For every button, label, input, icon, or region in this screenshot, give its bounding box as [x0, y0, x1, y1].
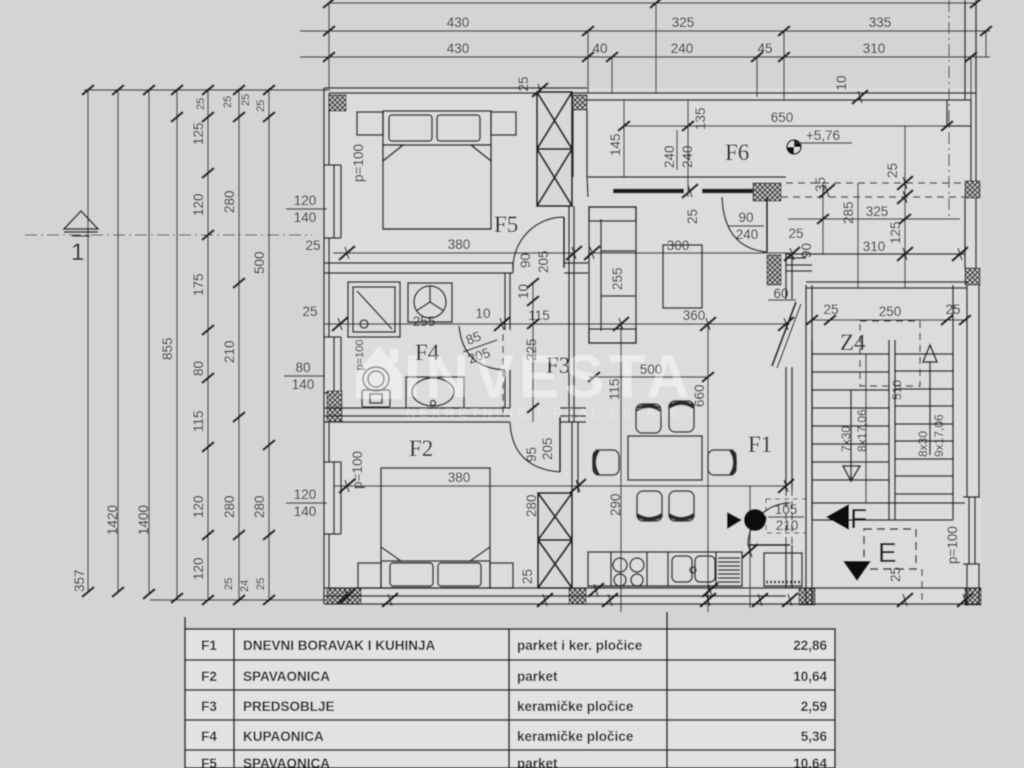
- svg-text:25: 25: [255, 578, 267, 590]
- entry arrow dot: [744, 509, 766, 531]
- svg-text:SPAVAONICA: SPAVAONICA: [243, 669, 330, 684]
- dining chair right: [708, 450, 736, 475]
- F6 elevation marker: [787, 128, 852, 154]
- svg-text:INVESTA: INVESTA: [404, 343, 695, 410]
- stairwell north wall: [806, 282, 967, 288]
- F2 interior dim 380: [333, 470, 794, 493]
- wall hatch bottom-left corner: [327, 588, 361, 604]
- F1 vertical dim line 1: [707, 324, 709, 612]
- kitchen ticks: [742, 544, 758, 558]
- entry arrow triangle: [727, 512, 742, 529]
- svg-text:280: 280: [524, 494, 539, 517]
- F2 nightstand left: [358, 563, 381, 588]
- F2 nightstand right: [490, 563, 513, 588]
- kitchen dim 500: [588, 362, 714, 382]
- right wall above terrace: [965, 0, 976, 100]
- svg-text:240: 240: [671, 41, 694, 56]
- svg-text:380: 380: [448, 237, 471, 252]
- svg-text:145: 145: [608, 133, 623, 156]
- marker F triangle: [826, 504, 849, 530]
- F1 vertical dim line 3: [620, 324, 622, 612]
- tick on top wall: [532, 83, 548, 97]
- left chain labels: [72, 94, 267, 592]
- F4 door leaf dashed: [502, 334, 504, 418]
- svg-text:120: 120: [294, 487, 317, 502]
- svg-text:1400: 1400: [136, 505, 151, 535]
- wall hatch terrace south: [753, 183, 781, 201]
- svg-text:120: 120: [294, 193, 317, 208]
- svg-text:650: 650: [771, 110, 794, 125]
- svg-text:240: 240: [662, 145, 677, 168]
- svg-text:430: 430: [447, 41, 470, 56]
- F3 west wall / F4 east wall: [505, 273, 510, 408]
- F3 east wall: [569, 206, 574, 422]
- svg-text:90: 90: [799, 243, 814, 258]
- svg-text:210: 210: [222, 340, 237, 363]
- svg-text:1420: 1420: [105, 505, 120, 535]
- top dimension line row 1: [323, 0, 982, 8]
- svg-text:25: 25: [240, 94, 252, 106]
- left dimension top ticks: [82, 85, 275, 95]
- dining chair left: [593, 450, 619, 475]
- top wall F5: [324, 88, 587, 93]
- svg-text:DNEVNI BORAVAK I KUHINJA: DNEVNI BORAVAK I KUHINJA: [243, 638, 436, 653]
- table row F1: [201, 638, 827, 653]
- svg-text:325: 325: [866, 204, 889, 219]
- top dimension line row 3: [300, 41, 990, 62]
- F5 nightstand left: [357, 112, 383, 135]
- svg-text:25: 25: [516, 76, 531, 91]
- left dimension vertical lines: [84, 88, 332, 602]
- svg-text:F5: F5: [494, 212, 518, 237]
- window stairwell east wall: [963, 497, 980, 564]
- svg-text:45: 45: [757, 41, 772, 56]
- dining table: [628, 436, 702, 480]
- dashed line stair bottom: [921, 569, 923, 604]
- svg-text:120: 120: [191, 557, 206, 580]
- svg-text:25: 25: [520, 569, 535, 584]
- table row F5: [201, 756, 827, 768]
- svg-text:357: 357: [72, 569, 87, 592]
- svg-text:855: 855: [160, 337, 175, 360]
- marker down triangle: [843, 561, 871, 581]
- X shaft column F5: [537, 92, 572, 206]
- left wall window labels 120/140 F5: [286, 193, 327, 253]
- fridge cabinet: [764, 553, 802, 586]
- balcony sliding door: [768, 286, 801, 368]
- svg-text:120: 120: [191, 193, 206, 216]
- svg-text:380: 380: [448, 470, 471, 485]
- left outer wall: [324, 88, 329, 604]
- svg-text:10: 10: [475, 306, 490, 321]
- wall hatch F1 north stub: [767, 255, 781, 285]
- X shaft column F2: [538, 493, 572, 588]
- window F2 left wall: [324, 462, 341, 534]
- svg-text:F2: F2: [201, 669, 217, 684]
- F6 interior dim line vertical: [624, 100, 688, 197]
- F4-F2 bottom wall: [324, 408, 586, 422]
- svg-text:F5: F5: [201, 756, 217, 768]
- svg-text:175: 175: [191, 273, 206, 296]
- svg-text:25: 25: [823, 302, 838, 317]
- svg-text:80: 80: [191, 361, 206, 376]
- wall hatch below F4 window: [327, 391, 342, 422]
- stairs right flight treads: [895, 354, 953, 494]
- svg-text:PREDSOBLJE: PREDSOBLJE: [243, 699, 335, 714]
- tick on terrace top wall: [852, 90, 868, 104]
- table row F4: [201, 729, 827, 744]
- wall hatch bottom stair-west: [799, 588, 815, 605]
- svg-text:115: 115: [191, 410, 206, 432]
- svg-text:25: 25: [223, 578, 235, 590]
- svg-text:25: 25: [888, 567, 903, 582]
- Z4 dashed landing rect: [860, 321, 920, 386]
- svg-text:10,64: 10,64: [793, 669, 827, 684]
- dash-dot axis top right: [948, 0, 950, 220]
- terrace south wall thin edge: [588, 176, 786, 178]
- svg-text:90: 90: [738, 210, 753, 225]
- F4 washbasin: [406, 377, 464, 408]
- svg-text:25: 25: [305, 238, 320, 253]
- svg-text:24: 24: [239, 580, 251, 592]
- Z4 dims 25 250 25: [806, 302, 971, 325]
- svg-text:115: 115: [528, 308, 550, 323]
- stairs down arrow: [843, 390, 860, 482]
- entry door labels 105/210: [766, 499, 806, 533]
- svg-text:1: 1: [71, 239, 84, 266]
- F2 bed: [381, 468, 490, 588]
- svg-text:210: 210: [776, 518, 799, 533]
- bottom outer wall: [324, 588, 981, 604]
- svg-text:25: 25: [788, 226, 803, 241]
- dining chair top-left: [636, 404, 661, 433]
- section marker triangle 1: [64, 211, 98, 266]
- svg-text:25: 25: [195, 98, 207, 110]
- dim line balcony mid: [788, 214, 960, 224]
- F5 bottom wall: [324, 263, 588, 273]
- svg-text:25: 25: [685, 209, 700, 224]
- svg-text:300: 300: [667, 238, 690, 253]
- svg-text:125: 125: [888, 221, 903, 244]
- wall hatch terrace east 1: [965, 181, 980, 198]
- table background: [185, 629, 835, 768]
- svg-text:205: 205: [536, 250, 551, 273]
- F1 vertical dim line 2: [749, 486, 751, 608]
- svg-text:keramičke pločice: keramičke pločice: [517, 729, 634, 744]
- svg-text:240: 240: [736, 227, 759, 242]
- F5 door leaf and arc: [513, 217, 564, 268]
- window F5 left wall: [324, 165, 341, 238]
- svg-text:25: 25: [885, 163, 900, 178]
- svg-text:280: 280: [222, 190, 237, 213]
- svg-text:360: 360: [683, 308, 706, 323]
- svg-text:F1: F1: [748, 432, 772, 457]
- svg-text:310: 310: [863, 41, 886, 56]
- entry door opening dashed: [786, 489, 792, 545]
- interior dim line y324: [324, 317, 794, 331]
- terrace F5 window band ticks: [682, 184, 698, 198]
- svg-text:F1: F1: [201, 638, 217, 653]
- svg-text:205: 205: [540, 437, 555, 460]
- wall hatch F5-terrace corner: [572, 95, 587, 110]
- stairwell west wall: [806, 285, 812, 604]
- kitchen sink: [672, 556, 715, 582]
- svg-text:35: 35: [813, 177, 828, 192]
- dining chair bottom-right: [669, 491, 694, 521]
- dining chair bottom-left: [637, 491, 662, 521]
- svg-text:parket i ker. pločice: parket i ker. pločice: [517, 638, 643, 653]
- svg-text:22,86: 22,86: [793, 638, 827, 653]
- left wall window labels 80/140 F4: [284, 304, 325, 392]
- svg-text:F2: F2: [409, 436, 433, 461]
- svg-text:325: 325: [672, 15, 695, 30]
- wall hatch terrace east 2: [965, 268, 980, 285]
- stairwell east outer wall: [967, 285, 979, 604]
- svg-text:125: 125: [191, 122, 206, 145]
- top dimension line row 2: [300, 15, 992, 36]
- svg-text:p=100: p=100: [351, 144, 366, 182]
- left wall window labels 120/140 F2: [286, 487, 327, 519]
- bottom wall ticks: [339, 589, 973, 607]
- svg-text:240: 240: [680, 145, 695, 168]
- left dimension chain ticks: [82, 112, 275, 605]
- svg-text:E: E: [878, 537, 897, 568]
- svg-text:parket: parket: [517, 669, 558, 684]
- svg-text:25: 25: [255, 100, 267, 112]
- svg-text:SPAVAONICA: SPAVAONICA: [243, 756, 330, 768]
- F5 interior dim line 380: [333, 237, 600, 260]
- svg-text:280: 280: [222, 495, 237, 518]
- terrace south wall band right: [702, 189, 753, 194]
- svg-text:335: 335: [869, 15, 892, 30]
- svg-text:F3: F3: [201, 699, 217, 714]
- svg-text:140: 140: [294, 504, 317, 519]
- window F4 left wall: [324, 337, 341, 393]
- stairs left flight treads: [812, 354, 889, 480]
- F4 door arc: [459, 326, 505, 370]
- legend table grid: [185, 612, 835, 768]
- F2 door leaf and arc: [510, 417, 560, 472]
- svg-text:95: 95: [524, 447, 539, 462]
- F4 shower: [348, 282, 400, 337]
- kitchen counter: [588, 552, 742, 586]
- svg-text:510: 510: [890, 380, 904, 400]
- F5 nightstand right: [491, 112, 516, 135]
- svg-text:140: 140: [294, 210, 317, 225]
- svg-text:25: 25: [222, 96, 234, 108]
- wall hatch bottom F2 corner: [569, 588, 586, 604]
- svg-text:keramičke pločice: keramičke pločice: [517, 699, 634, 714]
- svg-text:10,64: 10,64: [793, 756, 827, 768]
- F4 washing machine: [408, 283, 452, 322]
- kitchen dishwasher grill: [718, 558, 740, 582]
- svg-text:7x30: 7x30: [839, 426, 853, 452]
- svg-text:25: 25: [302, 304, 317, 319]
- svg-text:40: 40: [592, 41, 607, 56]
- terrace east outer wall: [965, 93, 976, 268]
- F5 bed: [383, 111, 491, 229]
- F1 northeast wall segment: [786, 265, 812, 271]
- svg-text:280: 280: [252, 495, 267, 518]
- svg-text:80: 80: [295, 360, 310, 375]
- F6 door to F1 leaf and arc: [722, 197, 767, 252]
- svg-text:120: 120: [191, 495, 206, 518]
- svg-text:F6: F6: [725, 140, 749, 165]
- interior dim line y253: [588, 252, 790, 254]
- svg-text:10: 10: [516, 284, 531, 299]
- stairs center rail: [812, 285, 965, 520]
- svg-text:285: 285: [841, 201, 856, 224]
- watermark house icon: [356, 346, 402, 399]
- balcony tick: [819, 184, 835, 198]
- F4 toilet: [362, 367, 390, 407]
- svg-text:Z4: Z4: [840, 330, 866, 355]
- svg-text:9x17,06: 9x17,06: [932, 414, 946, 457]
- terrace south dashed lines: [781, 183, 965, 197]
- stairs up arrow: [923, 345, 937, 455]
- F2 east wall: [572, 422, 578, 493]
- svg-text:2,59: 2,59: [801, 699, 827, 714]
- svg-text:105: 105: [775, 502, 798, 517]
- apartment floor background: [324, 88, 981, 604]
- marker E dashed box: [864, 529, 916, 569]
- F1 east wall: [786, 254, 792, 588]
- svg-text:255: 255: [610, 267, 625, 290]
- svg-text:+5,76: +5,76: [806, 128, 840, 143]
- svg-text:NEKRETNINE I REAL ESTATE: NEKRETNINE I REAL ESTATE: [406, 405, 682, 420]
- F5 east wall upper: [573, 110, 588, 197]
- wall hatch bottom-right corner: [965, 588, 981, 605]
- top extension lines: [329, 3, 986, 100]
- svg-text:250: 250: [879, 304, 902, 319]
- F4 door labels 85/205: [463, 329, 497, 367]
- svg-text:KUPAONICA: KUPAONICA: [243, 729, 324, 744]
- table row F2: [201, 669, 827, 684]
- F1 couch: [589, 207, 636, 343]
- svg-text:60: 60: [773, 286, 788, 301]
- svg-text:parket: parket: [517, 756, 558, 768]
- svg-text:F4: F4: [201, 729, 217, 744]
- terrace top wall: [573, 93, 976, 126]
- svg-text:140: 140: [292, 377, 315, 392]
- svg-text:255: 255: [413, 314, 436, 329]
- balcony south line: [784, 247, 968, 261]
- svg-text:8x17,06: 8x17,06: [855, 409, 869, 452]
- dining chair top-right: [669, 401, 694, 432]
- svg-text:135: 135: [693, 107, 708, 130]
- svg-text:p=100: p=100: [945, 526, 960, 564]
- entry door leaf and arc: [748, 503, 790, 545]
- svg-text:5,36: 5,36: [801, 729, 828, 744]
- svg-text:500: 500: [252, 251, 267, 274]
- svg-text:310: 310: [863, 239, 886, 254]
- kitchen stove burners: [613, 558, 644, 586]
- svg-text:p=100: p=100: [350, 451, 365, 489]
- balcony dim verticals: [823, 126, 905, 288]
- svg-text:8x30: 8x30: [916, 431, 930, 457]
- F1 coffee table: [663, 245, 702, 308]
- wall corner hatch top-left: [329, 95, 346, 111]
- F6 dim 650: [618, 110, 953, 131]
- section axis dash-dot line: [25, 234, 312, 236]
- svg-text:90: 90: [518, 253, 533, 268]
- svg-text:10: 10: [834, 75, 849, 90]
- F5 bed blanket lines: [383, 228, 491, 230]
- F3 dim chain: [516, 278, 550, 422]
- F6 dim 240/240: [662, 130, 695, 170]
- table row F3: [201, 699, 827, 714]
- F6-F1 door labels 90/240: [728, 210, 764, 242]
- svg-text:430: 430: [447, 15, 470, 30]
- terrace south window sill band: [613, 189, 684, 194]
- dim 25 above dashed: [885, 163, 913, 204]
